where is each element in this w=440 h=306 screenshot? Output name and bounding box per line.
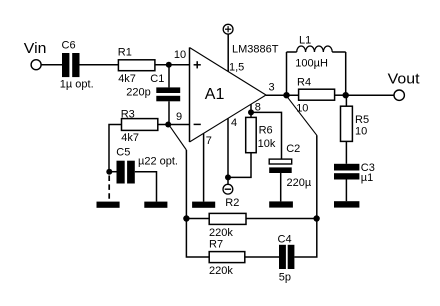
capacitor C6 bbox=[62, 53, 80, 77]
svg-text:9: 9 bbox=[176, 111, 182, 123]
capacitor C4 bbox=[279, 245, 294, 269]
resistor R3 bbox=[122, 119, 158, 131]
wire pin 7 to ground bbox=[203, 134, 205, 202]
svg-text:Vout: Vout bbox=[388, 71, 421, 88]
ground (C2) bbox=[269, 201, 293, 207]
svg-text:C2: C2 bbox=[286, 143, 300, 155]
svg-text:10: 10 bbox=[174, 49, 186, 61]
node junction pin4/R6/V- bbox=[225, 174, 231, 180]
wire R3 left down to C5 node bbox=[109, 125, 122, 172]
svg-text:R3: R3 bbox=[121, 108, 135, 120]
svg-text:3: 3 bbox=[269, 82, 275, 94]
op-amp A1 bbox=[190, 48, 267, 143]
ground (C3) bbox=[334, 201, 359, 207]
svg-text:R5: R5 bbox=[355, 114, 369, 126]
svg-text:1µ opt.: 1µ opt. bbox=[60, 79, 94, 91]
resistor R7 bbox=[209, 252, 245, 263]
node junction +input/C1 bbox=[166, 62, 172, 68]
svg-text:A1: A1 bbox=[205, 86, 225, 103]
svg-text:µ22 opt.: µ22 opt. bbox=[138, 155, 178, 167]
resistor R6 bbox=[246, 104, 257, 152]
svg-text:1,5: 1,5 bbox=[229, 62, 244, 74]
wire R1 to op-amp + input bbox=[155, 64, 190, 66]
node junction pin8/R6/C2 bbox=[248, 109, 254, 115]
capacitor C5 bbox=[109, 161, 157, 202]
svg-text:L1: L1 bbox=[299, 35, 311, 47]
resistor R5 bbox=[341, 95, 353, 164]
svg-text:R6: R6 bbox=[259, 125, 273, 137]
svg-text:5p: 5p bbox=[279, 271, 291, 283]
capacitor C1 bbox=[156, 65, 180, 125]
svg-text:10: 10 bbox=[355, 125, 367, 137]
wire dashed C5 node to ground bbox=[108, 176, 110, 202]
wire pin 4 down bbox=[227, 118, 229, 184]
svg-text:220k: 220k bbox=[209, 227, 233, 239]
svg-text:R4: R4 bbox=[297, 77, 311, 89]
svg-text:4: 4 bbox=[231, 117, 237, 129]
wire R7 to C4 bbox=[245, 256, 279, 258]
wire R3 to op-amp - input bbox=[158, 124, 190, 126]
node junction R3/C5 bbox=[106, 169, 112, 175]
svg-text:220µ: 220µ bbox=[287, 177, 312, 189]
wire R2 left bbox=[186, 218, 209, 220]
wire R2 right bbox=[246, 218, 317, 220]
svg-text:Vin: Vin bbox=[24, 40, 47, 57]
capacitor C3 bbox=[334, 164, 359, 201]
ground (pin 7) bbox=[192, 202, 215, 208]
wire feedback left (diagonal from -input) bbox=[169, 125, 186, 150]
svg-text:R1: R1 bbox=[118, 47, 132, 59]
svg-text:C4: C4 bbox=[278, 234, 292, 246]
wire V- node to R6 bottom bbox=[228, 153, 251, 178]
ground (C5 dashed) bbox=[97, 202, 120, 208]
svg-text:220k: 220k bbox=[209, 265, 233, 277]
wire C6 to R1 bbox=[80, 64, 119, 66]
svg-text:LM3886T: LM3886T bbox=[232, 44, 279, 56]
svg-text:10: 10 bbox=[296, 103, 308, 115]
wire to Vout bbox=[346, 94, 394, 96]
wire op-amp output bbox=[266, 94, 299, 96]
svg-text:C1: C1 bbox=[150, 73, 164, 85]
node junction feedback left bbox=[183, 215, 189, 221]
svg-text:8: 8 bbox=[255, 102, 261, 114]
node Vout terminal bbox=[394, 90, 404, 100]
svg-text:220p: 220p bbox=[126, 87, 150, 99]
resistor R1 bbox=[118, 60, 154, 71]
svg-text:10k: 10k bbox=[258, 138, 276, 150]
capacitor C2 bbox=[269, 159, 292, 201]
svg-text:C5: C5 bbox=[116, 146, 130, 158]
svg-text:C6: C6 bbox=[62, 40, 76, 52]
node Vin terminal bbox=[31, 60, 41, 70]
node output junction bbox=[283, 92, 289, 98]
wire feedback left vertical bbox=[186, 150, 209, 257]
svg-text:100µH: 100µH bbox=[295, 58, 328, 70]
wire Vin to C6 bbox=[41, 64, 62, 66]
node junction -input/C1/R3/feedback bbox=[165, 122, 171, 128]
ground (C5 right) bbox=[144, 202, 167, 208]
wire pin8 to C2 bbox=[251, 112, 282, 159]
resistor R4 bbox=[299, 89, 335, 100]
power V- terminal bbox=[223, 184, 233, 194]
inductor L1 bbox=[287, 46, 346, 95]
svg-text:4k7: 4k7 bbox=[118, 73, 136, 85]
node junction R4/L1/R5/Vout bbox=[343, 92, 349, 98]
svg-text:7: 7 bbox=[206, 135, 212, 147]
wire output to feedback (diagonal right) bbox=[287, 97, 317, 136]
power V+ terminal bbox=[223, 24, 233, 71]
wire feedback right vertical bbox=[294, 135, 316, 257]
node junction feedback right bbox=[313, 215, 319, 221]
svg-text:µ1: µ1 bbox=[361, 172, 373, 184]
svg-text:4k7: 4k7 bbox=[121, 132, 139, 144]
resistor R2 bbox=[209, 213, 246, 224]
svg-text:R7: R7 bbox=[209, 239, 223, 251]
wire R4 to output node bbox=[335, 94, 346, 96]
svg-text:R2: R2 bbox=[225, 197, 239, 209]
